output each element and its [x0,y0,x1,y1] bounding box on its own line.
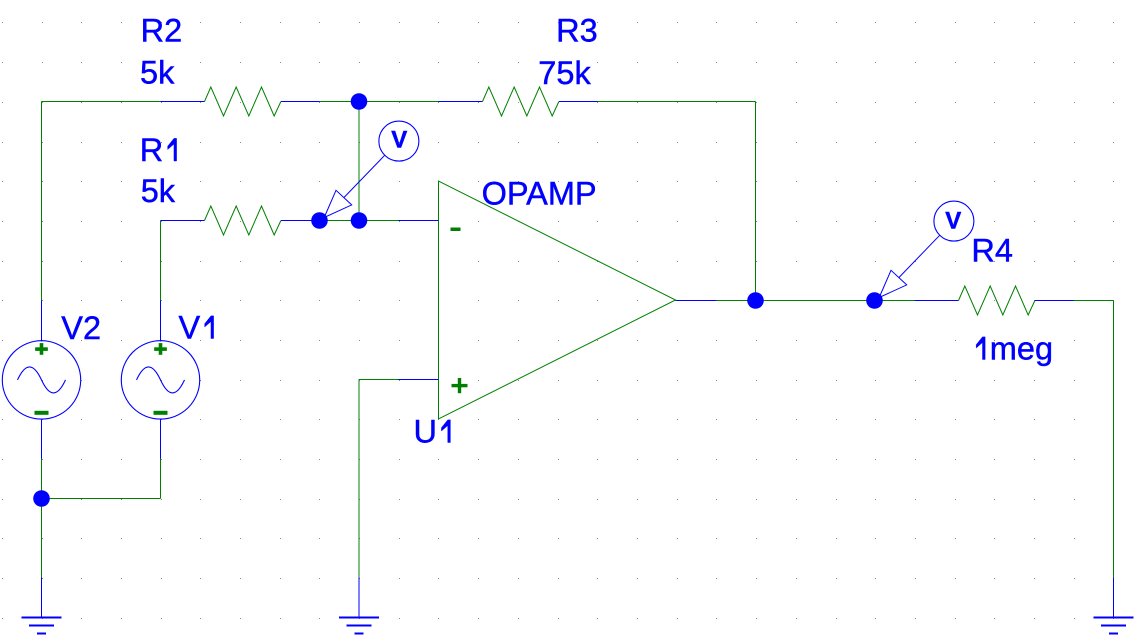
node inverting input junction B [351,212,368,229]
wire R1 right to inverting input [320,220,399,222]
voltage source V1 [121,301,199,459]
label R3 value 75k [538,55,591,91]
resistor R1 [161,206,320,235]
label R4 ref [971,233,1013,269]
svg-text:5k: 5k [141,173,176,209]
wire R3 right down to output [598,102,756,301]
wire V2 top to R2 left [42,102,161,301]
label R4 value 1meg [976,331,1053,367]
label R2 value 5k [140,55,175,91]
op-amp U1 noninverting input pin [399,379,439,381]
label R1 value 5k [141,173,176,209]
svg-text:OPAMP: OPAMP [482,176,597,212]
wire opamp output to R4 [717,300,915,302]
svg-text:V: V [945,207,961,234]
node R4 input junction [866,292,883,309]
svg-text:meg: meg [990,331,1053,367]
wire R4 right to ground [1074,301,1114,578]
node R2-R3 junction [351,93,368,110]
svg-text:V: V [179,310,201,346]
label U1 part OPAMP [482,176,597,212]
op-amp U1 [439,181,676,419]
svg-text:75k: 75k [538,55,591,91]
resistor R2 [161,87,320,116]
label U1 ref [414,414,451,450]
svg-text:V2: V2 [61,310,101,346]
label V1 ref [179,310,214,346]
label R2 ref [141,13,183,49]
resistor R4 [915,286,1074,315]
node V2-V1 common junction [33,490,50,507]
svg-text:V: V [391,127,407,154]
wire V2 bottom to common node [41,459,43,578]
ground at R4 return [1094,578,1134,634]
voltage probe at inverting input [324,121,419,217]
wire V1 bottom to common node [42,459,161,499]
svg-text:R: R [140,132,163,168]
svg-text:R3: R3 [556,13,598,49]
svg-text:5k: 5k [140,55,175,91]
label R1 ref [140,132,177,168]
svg-text:R2: R2 [141,13,183,49]
wire V1 top to R1 left [160,221,162,301]
op-amp U1 output pin [676,300,717,302]
resistor R3 [439,87,598,116]
svg-text:R4: R4 [971,233,1013,269]
wire feedback node vertical [358,102,360,221]
label V2 ref [61,310,101,346]
voltage source V2 [2,301,80,459]
ground at sources common [22,578,62,634]
wire noninverting input to ground [359,380,399,578]
node inverting input junction A [311,212,328,229]
label R3 ref [556,13,598,49]
voltage probe at output [879,201,974,297]
wire R2 right to feedback node [320,101,439,103]
op-amp U1 inverting input pin [399,220,439,222]
node opamp output junction [747,292,764,309]
svg-text:U: U [414,414,437,450]
ground at noninverting input [339,578,379,634]
